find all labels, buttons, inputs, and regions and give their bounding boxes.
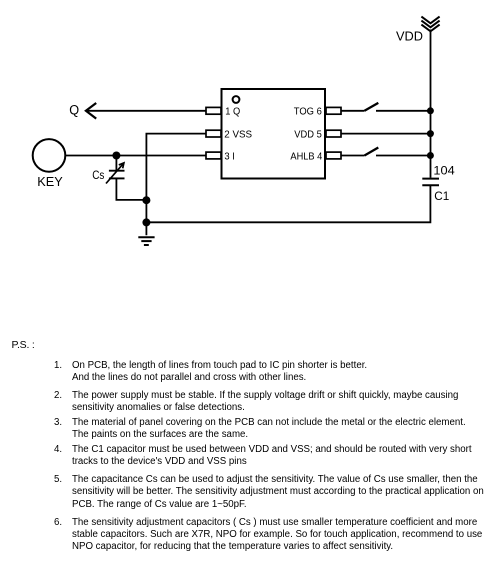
svg-text:Q: Q [69, 102, 79, 117]
wire pin 5 to VDD bus [341, 133, 430, 135]
touch pad KEY [33, 139, 66, 172]
wire bottom rail to C1 [146, 185, 430, 222]
pin 1 Q stub [206, 107, 221, 114]
wire switch to VDD bus (TOG) [376, 110, 430, 112]
wire pin 4 to switch [341, 155, 365, 157]
svg-text:VDD 5: VDD 5 [294, 128, 322, 140]
junction dot bottom rail [142, 218, 150, 226]
arrow head Q output [86, 103, 96, 119]
junction dot AHLB on bus [427, 152, 434, 159]
junction dot VDD pin on bus [427, 130, 434, 137]
capacitor C1 plates [422, 178, 439, 180]
wire KEY to pin 3 [65, 155, 206, 157]
junction dot TOG on bus [427, 107, 434, 114]
wire pin 6 to switch [341, 110, 365, 112]
power symbol VDD [396, 17, 440, 44]
pin 4 AHLB stub [326, 152, 341, 159]
switch TOG lever [365, 103, 379, 111]
svg-text:1 Q: 1 Q [225, 105, 240, 117]
svg-text:VDD: VDD [396, 29, 423, 44]
svg-text:C1: C1 [434, 189, 449, 203]
pin 2 VSS stub [206, 130, 221, 137]
wire VDD bus vertical [430, 30, 432, 178]
IC U1 pin-1 index dot [233, 96, 240, 103]
pin 5 VDD stub [326, 130, 341, 137]
wire VSS pin 2 to ground rail [146, 134, 206, 236]
capacitor Cs (variable) plates [109, 170, 125, 172]
pin 3 I stub [206, 152, 221, 159]
svg-text:104: 104 [433, 163, 454, 177]
pin 6 TOG stub [326, 107, 341, 114]
IC U1 body [222, 89, 326, 179]
wire Q output [87, 110, 206, 112]
switch AHLB lever [365, 148, 379, 156]
junction dot Cs tap [112, 152, 120, 160]
capacitor Cs adjustment arrow [106, 163, 124, 184]
wire Cs bottom lead [116, 178, 146, 200]
svg-text:AHLB 4: AHLB 4 [290, 151, 322, 163]
wire switch to VDD bus (AHLB) [376, 155, 430, 157]
svg-text:2 VSS: 2 VSS [224, 129, 252, 141]
svg-text:3 I: 3 I [224, 150, 235, 162]
svg-text:KEY: KEY [37, 174, 63, 189]
wire Cs top lead [115, 156, 117, 171]
svg-text:Cs: Cs [92, 168, 104, 182]
svg-text:TOG 6: TOG 6 [294, 106, 322, 118]
ground [138, 237, 154, 245]
junction dot Cs return [142, 196, 150, 204]
